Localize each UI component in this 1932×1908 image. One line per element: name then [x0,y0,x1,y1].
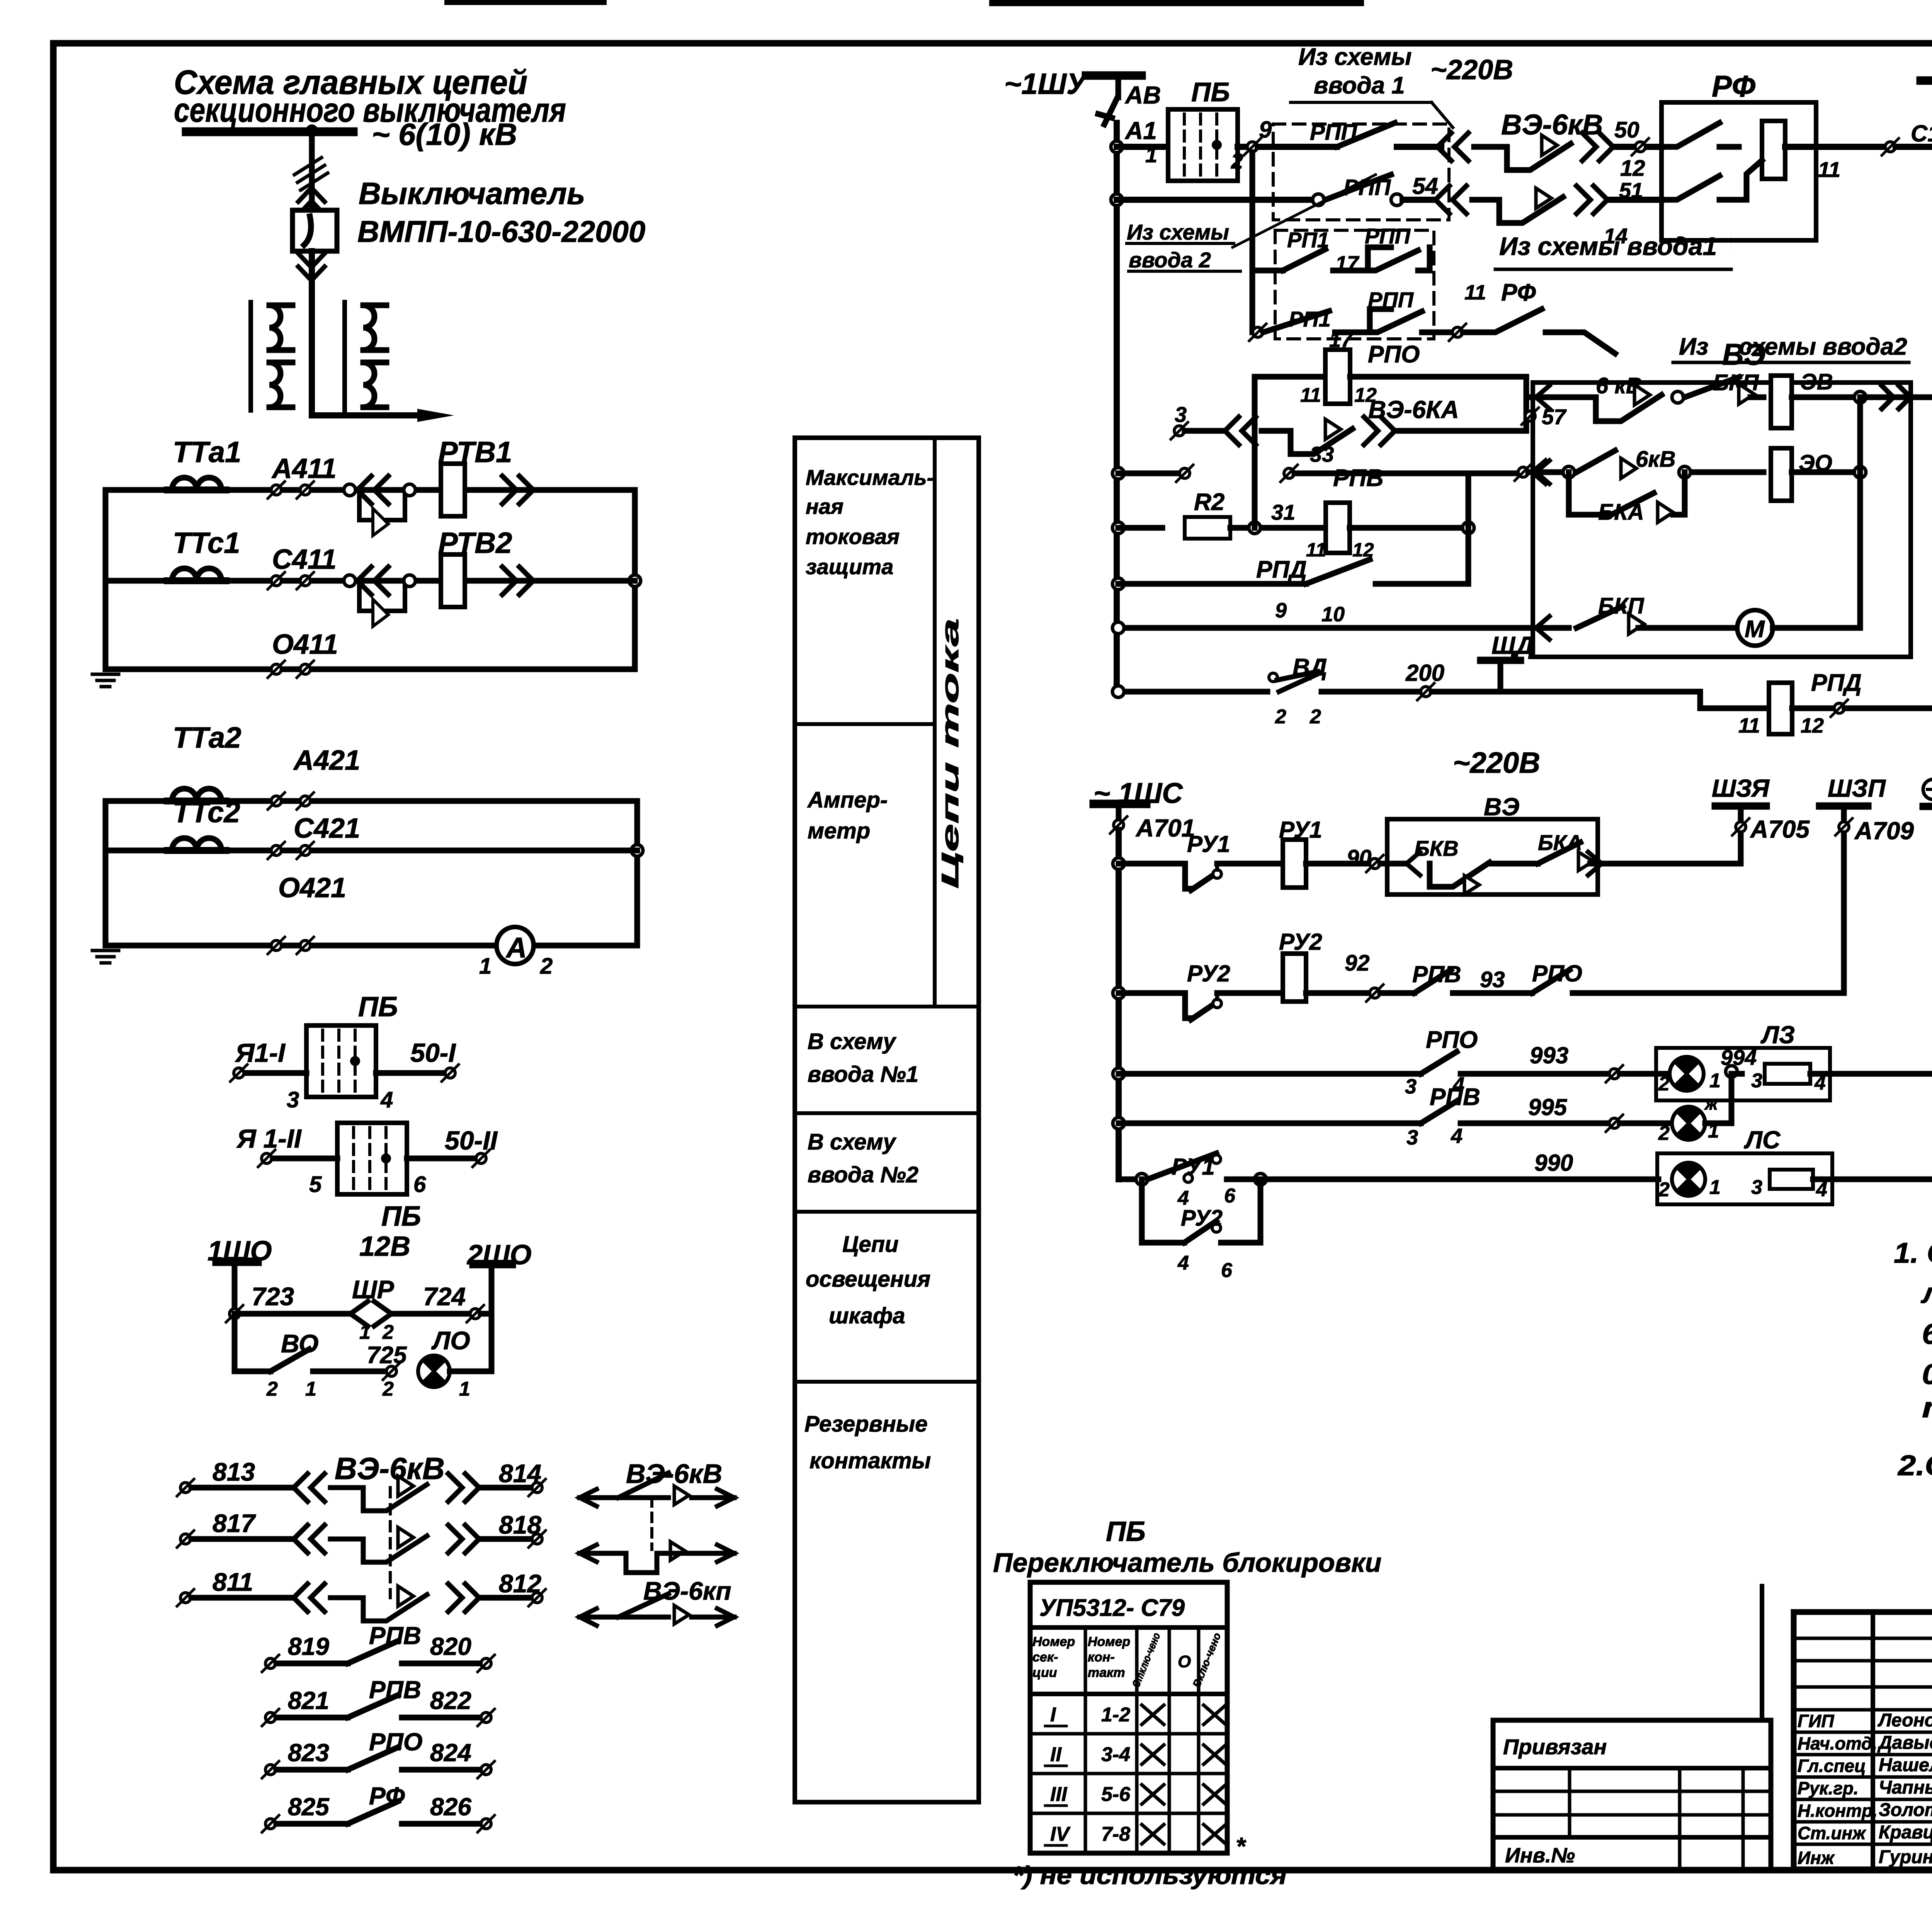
wire [1139,1179,1145,1243]
svg-text:ЛС: ЛС [1744,1126,1781,1154]
wire [1673,472,1685,515]
wire [1737,1071,1742,1077]
underline [1673,361,1909,364]
switch ПБ [1168,109,1238,181]
svg-text:2: 2 [1658,1178,1670,1201]
wire [1144,993,1217,1020]
relay coil ЭО [1771,448,1792,501]
svg-text:Я1-I: Я1-I [235,1038,286,1068]
wire [376,1070,444,1076]
svg-text:ввода 2: ввода 2 [1129,248,1211,272]
svg-text:Я 1-II: Я 1-II [236,1124,302,1153]
wire [1590,861,1741,867]
line [1493,1766,1771,1770]
wire [1142,1240,1184,1246]
wire [1045,1844,1066,1847]
wire [692,1615,734,1620]
svg-text:1: 1 [1709,1070,1721,1092]
wire [1731,232,1731,250]
X mark [1204,1785,1226,1804]
node [1249,522,1260,534]
node [404,484,415,496]
wire [1215,864,1219,870]
contact РПО blade [1421,1052,1457,1074]
ПБ contact I [306,1025,376,1097]
svg-text:А411: А411 [271,453,337,484]
column line [1742,1768,1745,1869]
wire [1785,144,1816,150]
svg-text:А1: А1 [1124,117,1157,145]
terminal 57 [1522,408,1539,425]
svg-text:2: 2 [1658,1122,1670,1144]
svg-text:РТВ2: РТВ2 [438,527,512,559]
node [404,575,415,587]
wire to ШС vertical [1813,1177,1932,1182]
node on bus row1 [1111,141,1122,153]
busbar ШЗЯ [1712,803,1770,809]
svg-text:724: 724 [423,1282,466,1311]
svg-text:825: 825 [288,1793,330,1821]
svg-text:Из схемы ввода1: Из схемы ввода1 [1499,232,1717,260]
row B entry [1533,469,1569,475]
chevrons [448,1474,479,1502]
wire [1230,525,1325,531]
svg-text:защита: защита [806,554,893,579]
busbar ЩД [1477,657,1524,664]
svg-text:Цепи тока: Цепи тока [937,618,964,889]
svg-text:10: 10 [1321,603,1345,626]
chevrons [1582,133,1613,161]
table line [795,722,935,726]
svg-text:ВО: ВО [281,1329,318,1358]
svg-text:Н.контр.: Н.контр. [1798,1801,1878,1821]
line [1493,1813,1771,1817]
box [1656,1048,1830,1100]
wire [1221,1240,1260,1246]
ПБ contact II [337,1123,407,1194]
wire [1397,144,1441,150]
wire [298,253,325,281]
wire [1321,689,1420,695]
svg-text:Давыдов: Давыдов [1877,1733,1932,1753]
underline [1291,101,1432,104]
svg-text:ввода 1: ввода 1 [1314,72,1405,99]
svg-text:токовая: токовая [806,524,900,549]
box [1387,819,1598,894]
svg-text:ЭВ: ЭВ [1801,369,1833,395]
svg-text:ПБ: ПБ [1191,77,1230,107]
wire [276,1661,348,1667]
terminal [297,842,314,859]
wire [1045,1804,1066,1807]
node [629,575,641,587]
triangle [1629,614,1644,634]
svg-text:В схему: В схему [808,1129,896,1155]
terminal [529,1589,546,1606]
wire [1492,861,1538,867]
svg-text:ШЗП: ШЗП [1828,774,1886,802]
svg-text:С1: С1 [1911,121,1932,146]
resistor R2 [1185,517,1230,539]
svg-text:Кравцова: Кравцова [1879,1822,1932,1843]
wire [1306,990,1370,996]
svg-text:1-2: 1-2 [1101,1704,1130,1726]
svg-text:кон-: кон- [1088,1650,1115,1665]
svg-text:994: 994 [1721,1045,1757,1070]
triangle [1634,385,1650,405]
svg-text:РФ: РФ [1712,69,1755,103]
chevron [1406,852,1420,875]
svg-text:АВ: АВ [1124,81,1161,109]
wire [1376,581,1468,587]
svg-text:РП1: РП1 [1287,228,1329,252]
underline [1129,270,1240,273]
svg-text:1: 1 [479,954,492,979]
wire row А411 [105,487,635,493]
svg-text:ТТс1: ТТс1 [173,527,240,559]
svg-text:УП5312- С79: УП5312- С79 [1039,1595,1185,1621]
wire [247,1070,306,1076]
svg-text:2: 2 [382,1378,394,1400]
resistor ЛЗ [1765,1064,1810,1084]
svg-text:ЩД: ЩД [1492,631,1534,659]
svg-text:3: 3 [1751,1176,1762,1199]
wire [1283,249,1325,270]
svg-text:контакты: контакты [810,1448,931,1473]
chevrons [448,1584,479,1612]
svg-text:Из схемы: Из схемы [1298,44,1412,70]
dashed link [650,1498,653,1549]
chevron [1532,461,1546,484]
resistor ЛС [1770,1170,1813,1189]
svg-text:1: 1 [305,1378,316,1400]
box [1030,1582,1227,1853]
terminal [1835,818,1852,835]
svg-text:ТТа1: ТТа1 [173,436,241,469]
svg-text:819: 819 [288,1633,329,1660]
X mark [1204,1745,1226,1764]
relay РТВ1 [441,464,465,516]
wire [1337,123,1395,147]
terminal [297,792,314,809]
wire [1335,309,1422,332]
wire [235,1369,270,1374]
terminal [1449,324,1466,341]
svg-text:31: 31 [1271,500,1295,524]
svg-text:ная: ная [806,494,844,519]
wire vertical [1466,473,1471,584]
node [631,845,643,856]
svg-text:Леонов: Леонов [1878,1710,1932,1731]
relay coil ЭВ [1771,376,1792,428]
svg-text:50-II: 50-II [445,1126,498,1155]
table line [1030,1812,1227,1815]
contact 6кВ blade [1569,395,1662,421]
ammeter A [497,927,534,964]
terminal [529,1479,546,1496]
svg-text:9: 9 [1275,599,1287,622]
contact blade [348,1747,398,1770]
wire [1045,1765,1066,1767]
contact blade [1472,197,1563,223]
svg-text:Ампер-: Ампер- [807,787,888,813]
wire [1306,861,1370,867]
svg-text:РУ1: РУ1 [1172,1154,1215,1180]
chevrons [294,1584,325,1612]
terminal [383,1363,400,1380]
svg-text:РТВ1: РТВ1 [438,436,512,469]
svg-text:ШР: ШР [352,1275,395,1304]
svg-text:Ст.инж: Ст.инж [1798,1823,1866,1843]
terminal [1606,1115,1623,1132]
wire [580,1615,668,1620]
wire [1215,993,1219,999]
triangle [1542,135,1557,155]
terminal [268,937,285,954]
wire busbar to breaker [309,131,315,210]
svg-text:7-8: 7-8 [1101,1823,1130,1845]
svg-text:1: 1 [359,1321,371,1343]
contact blade [1474,144,1571,170]
svg-text:5: 5 [309,1172,322,1197]
wire row С421 [105,848,637,854]
svg-text:6ВБ.071.802.ПЭ3 технической: 6ВБ.071.802.ПЭ3 технической информации [1922,1318,1932,1350]
svg-text:РПВ: РПВ [369,1622,421,1650]
wire [1263,311,1329,332]
exit chevrons [1882,386,1910,409]
svg-text:РПВ: РПВ [1412,961,1461,987]
terminal [1882,138,1899,155]
X mark [1204,1825,1226,1844]
svg-text:Отклю-чено: Отклю-чено [1130,1631,1163,1689]
wire [692,1495,734,1500]
svg-text:РУ2: РУ2 [1187,961,1230,986]
wire [304,216,311,245]
wire [298,188,325,215]
svg-text:11: 11 [1818,157,1840,182]
X mark [1142,1785,1164,1804]
CT ТТа1 [167,478,226,490]
dashed box Из схемы ввода 2 [1275,230,1434,339]
wire row2 [1117,197,1314,203]
wire [1380,990,1414,996]
node [1269,673,1277,682]
svg-text:Рук.гр.: Рук.гр. [1798,1778,1859,1798]
svg-text:ГИП: ГИП [1798,1711,1834,1731]
svg-text:I: I [1050,1704,1056,1726]
wire [1620,1121,1672,1126]
terminal [1606,1065,1623,1082]
column line [1568,1768,1571,1837]
terminal Я1-II [258,1150,275,1167]
svg-text:813: 813 [213,1457,255,1486]
svg-text:~ 6(10) кВ: ~ 6(10) кВ [372,117,517,151]
dashed link [389,1488,392,1598]
scan artifact top-left [444,0,607,5]
svg-text:~220В: ~220В [1453,747,1540,779]
table line [795,1380,979,1384]
svg-text:Привязан: Привязан [1503,1735,1607,1759]
terminal [262,1655,279,1672]
junction dot [306,124,318,137]
svg-text:821: 821 [288,1687,329,1714]
svg-text:6: 6 [1221,1259,1233,1282]
svg-text:РФ: РФ [369,1782,405,1810]
busbar 6kV [182,128,357,136]
node [1184,1174,1192,1182]
svg-text:Выключатель: Выключатель [359,176,585,211]
wire [103,490,109,669]
svg-text:4: 4 [1177,1252,1189,1274]
svg-text:1: 1 [1709,1176,1721,1199]
table line [1030,1625,1227,1630]
svg-text:90: 90 [1347,845,1372,871]
node [1854,466,1866,478]
wire [1792,395,1860,400]
wire [1453,990,1532,996]
svg-text:РУ1: РУ1 [1279,817,1322,843]
wire [1227,1177,1256,1182]
underline [1495,268,1731,271]
wire [1325,175,1391,200]
svg-text:РПО: РПО [1532,961,1582,986]
wire [1841,806,1847,822]
terminal [1281,465,1298,482]
svg-text:метр: метр [808,818,870,843]
relay coil РФ [1762,121,1785,179]
wire row О421 [105,943,637,949]
node [1136,1173,1148,1185]
svg-text:Нач.отд.: Нач.отд. [1798,1733,1877,1753]
title block row [1794,1753,1932,1757]
svg-text:ТТа2: ТТа2 [173,721,241,754]
svg-text:О421: О421 [278,872,346,903]
table line [795,1210,979,1214]
svg-text:туры г. Запорожье.: туры г. Запорожье. [1922,1391,1932,1423]
X mark [1142,1705,1164,1724]
wire row1 [1117,144,1168,150]
contact blade [348,1801,398,1824]
svg-text:ВЭ: ВЭ [1722,337,1765,371]
wire [1418,268,1430,274]
column line [1678,1768,1682,1869]
svg-text:Номер: Номер [1032,1634,1075,1649]
wire [1662,123,1739,147]
box [1533,383,1911,657]
lamp ЛС [1672,1163,1705,1196]
terminal [1417,683,1434,700]
svg-text:ВМПП-10-630-22000: ВМПП-10-630-22000 [357,214,645,248]
svg-text:811: 811 [213,1568,253,1596]
svg-text:РПД: РПД [1811,670,1862,696]
contact РПВ blade [1414,970,1451,993]
busbar ШС [1920,803,1932,810]
box [1493,1720,1771,1869]
wire [1380,861,1406,867]
contact blade [348,1641,398,1663]
chevrons [448,1525,479,1553]
chevron [1588,852,1602,875]
svg-text:Золотарева: Золотарева [1879,1800,1932,1820]
svg-text:1: 1 [459,1378,470,1400]
svg-text:826: 826 [430,1793,471,1821]
node on bus [1112,622,1124,634]
wire [634,801,640,945]
wire to 2ШО vertical [450,1369,492,1374]
wire [191,1536,294,1542]
wire [1333,247,1418,270]
wire [1238,144,1247,150]
chevrons [1435,186,1466,214]
svg-text:5-6: 5-6 [1101,1783,1131,1806]
wire [1255,374,1325,380]
terminal [478,1815,495,1832]
wire [626,1553,657,1573]
triangle contact [674,1486,689,1505]
wire [1221,1179,1256,1180]
svg-text:Переключатель блокировки: Переключатель блокировки [993,1547,1381,1578]
table line [795,1005,979,1008]
svg-text:ПБ: ПБ [1106,1516,1146,1547]
contact blade [330,1536,427,1562]
table line [1030,1692,1227,1696]
node [1463,522,1474,534]
svg-text:ТТс2: ТТс2 [173,796,240,829]
ground [92,951,119,963]
wire [1403,197,1435,203]
wire [1692,469,1764,475]
wire [402,1661,481,1667]
wire [1350,525,1468,531]
svg-text:~220В: ~220В [1430,54,1513,85]
terminal [1515,464,1532,481]
svg-text:ции: ции [1032,1665,1057,1680]
svg-text:3: 3 [1406,1126,1418,1149]
wire [1792,706,1835,711]
node [1391,194,1403,206]
title block thin row [1794,1708,1932,1712]
terminal [1171,422,1188,439]
node [1854,391,1866,403]
wire [270,1349,309,1371]
svg-text:IV: IV [1050,1823,1071,1845]
title block row [1794,1798,1932,1801]
box [1273,124,1449,220]
svg-text:6: 6 [1224,1185,1236,1207]
title block column [1871,1612,1875,1869]
node [1213,870,1221,878]
wire [191,1485,294,1491]
entry chevron [1536,461,1549,484]
wire row3 [1119,1071,1421,1077]
svg-text:1. Схема электрическая п: 1. Схема электрическая принципиальная со… [1894,1237,1932,1269]
svg-text:РПВ: РПВ [1333,465,1384,491]
box [1794,1612,1932,1869]
svg-text:такт: такт [1088,1665,1125,1680]
svg-text:3: 3 [1175,402,1187,427]
terminal [268,792,285,809]
underline [1127,242,1234,245]
svg-text:РПП: РПП [1368,287,1414,312]
node [1313,194,1324,206]
wire row2 [1119,990,1144,996]
svg-text:РУ2: РУ2 [1181,1206,1223,1231]
terminal [268,842,285,859]
svg-text:РПО: РПО [369,1728,423,1756]
relay coil РУ1 [1283,840,1306,888]
wire [1098,97,1117,124]
wire [1461,1071,1609,1077]
